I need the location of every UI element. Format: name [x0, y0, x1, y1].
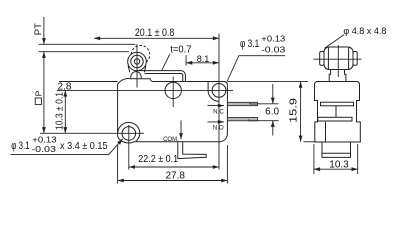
svg-text:N.O: N.O [213, 125, 224, 132]
svg-text:x 3.4 ± 0.15: x 3.4 ± 0.15 [60, 140, 108, 152]
svg-text:2.8: 2.8 [58, 82, 72, 93]
svg-text:8.1: 8.1 [197, 54, 210, 64]
svg-text:6.0: 6.0 [265, 107, 279, 118]
svg-text:φ 4.8 x 4.8: φ 4.8 x 4.8 [343, 26, 386, 37]
svg-text:20.1 ± 0.8: 20.1 ± 0.8 [135, 27, 175, 39]
svg-text:+0.13: +0.13 [261, 34, 285, 44]
svg-text:COM.: COM. [163, 137, 179, 143]
svg-text:φ 3.1: φ 3.1 [240, 38, 259, 50]
svg-text:-0.03: -0.03 [32, 144, 57, 154]
svg-text:22.2 ± 0.1: 22.2 ± 0.1 [138, 154, 178, 165]
svg-text:+0.13: +0.13 [32, 134, 57, 144]
svg-text:φ 3.1: φ 3.1 [11, 140, 29, 152]
svg-text:10.3: 10.3 [329, 159, 349, 170]
svg-text:PT: PT [33, 23, 44, 35]
svg-text:10.3 ± 0.1: 10.3 ± 0.1 [54, 92, 65, 130]
svg-text:t=0.7: t=0.7 [170, 44, 192, 55]
svg-text:27.8: 27.8 [165, 171, 185, 182]
svg-text:-0.03: -0.03 [261, 44, 285, 54]
svg-text:N.C: N.C [213, 108, 224, 115]
svg-text:15.9: 15.9 [287, 98, 299, 123]
svg-text:P: P [34, 90, 44, 96]
